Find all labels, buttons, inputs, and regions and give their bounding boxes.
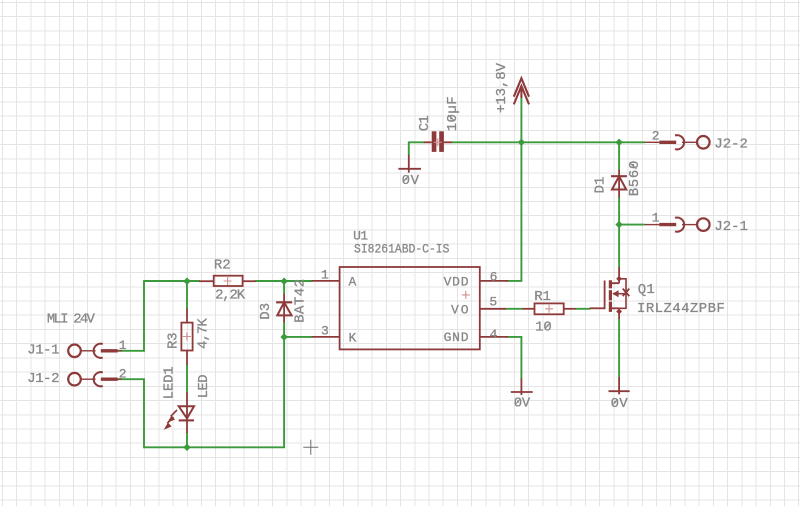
svg-text:R2: R2 bbox=[214, 257, 231, 273]
svg-text:1: 1 bbox=[652, 211, 660, 226]
svg-text:10: 10 bbox=[535, 319, 552, 335]
svg-text:B560: B560 bbox=[627, 161, 643, 197]
svg-text:GND: GND bbox=[444, 330, 469, 345]
svg-text:K: K bbox=[349, 330, 357, 345]
svg-text:6: 6 bbox=[490, 270, 498, 285]
svg-text:J1-2: J1-2 bbox=[27, 371, 59, 387]
svg-text:LED: LED bbox=[196, 374, 212, 398]
svg-text:VDD: VDD bbox=[444, 275, 469, 290]
svg-text:R3: R3 bbox=[166, 332, 182, 349]
svg-text:5: 5 bbox=[489, 295, 497, 310]
svg-text:BAT42: BAT42 bbox=[293, 279, 309, 323]
svg-text:+13,8V: +13,8V bbox=[494, 62, 510, 113]
svg-text:MLI 24V: MLI 24V bbox=[47, 311, 96, 327]
svg-text:Q1: Q1 bbox=[638, 282, 655, 298]
svg-text:J1-1: J1-1 bbox=[27, 343, 59, 359]
svg-text:J2-2: J2-2 bbox=[714, 137, 748, 153]
svg-text:VO: VO bbox=[451, 303, 469, 318]
svg-text:LED1: LED1 bbox=[162, 366, 178, 399]
svg-text:A: A bbox=[349, 274, 357, 289]
svg-text:3: 3 bbox=[321, 323, 329, 338]
svg-text:10µF: 10µF bbox=[445, 96, 461, 131]
svg-text:J2-1: J2-1 bbox=[714, 219, 748, 235]
svg-text:4,7K: 4,7K bbox=[196, 318, 212, 349]
svg-text:2: 2 bbox=[119, 366, 127, 381]
svg-text:4: 4 bbox=[490, 327, 498, 342]
svg-text:1: 1 bbox=[119, 338, 127, 353]
svg-text:R1: R1 bbox=[534, 289, 551, 305]
svg-text:2: 2 bbox=[652, 128, 660, 143]
svg-text:1: 1 bbox=[321, 267, 329, 282]
svg-text:D1: D1 bbox=[592, 177, 608, 194]
svg-text:2,2K: 2,2K bbox=[215, 288, 246, 304]
svg-text:IRLZ44ZPBF: IRLZ44ZPBF bbox=[637, 301, 725, 317]
svg-text:C1: C1 bbox=[417, 115, 433, 131]
svg-text:D3: D3 bbox=[258, 303, 274, 320]
svg-text:SI8261ABD-C-IS: SI8261ABD-C-IS bbox=[354, 241, 450, 256]
